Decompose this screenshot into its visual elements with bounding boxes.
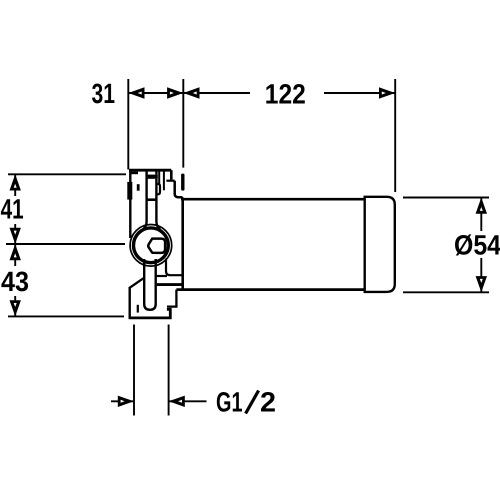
cylinder end cap — [365, 197, 395, 292]
extension line between 31 and 122 — [182, 79, 184, 168]
stem side bulge — [156, 184, 160, 194]
dimension line G1/2 left tail — [111, 400, 134, 402]
svg-text:41: 41 — [1, 193, 24, 224]
arrow 43 up — [10, 244, 21, 260]
hidden bottom line — [157, 283, 182, 286]
lower tick — [137, 305, 139, 313]
stem bridge block — [148, 175, 158, 179]
svg-text:G1: G1 — [216, 387, 243, 418]
arrow G1/2 pointing left — [169, 396, 185, 407]
dimension line 31 — [128, 92, 183, 94]
arrow 31 right — [167, 87, 183, 98]
arrow d54 up — [476, 198, 487, 214]
second slot line — [163, 171, 165, 191]
cylinder bottom edge — [176, 288, 365, 291]
bracket top edge — [129, 169, 171, 172]
svg-text:2: 2 — [260, 387, 276, 418]
cylinder top edge — [181, 198, 365, 201]
bracket right edge middle — [175, 181, 183, 200]
svg-text:31: 31 — [92, 78, 116, 109]
left tab bar — [127, 182, 132, 200]
bracket bottom edge — [129, 309, 171, 318]
stem right line — [156, 179, 160, 230]
chamfer lower left — [129, 277, 145, 288]
bracket upper right edge — [170, 170, 173, 180]
solid spigot bar — [181, 174, 184, 191]
cartridge rounded square — [148, 239, 165, 253]
valve outer circle — [130, 225, 172, 267]
hidden top line — [146, 198, 158, 201]
extension line top of 41 — [8, 173, 126, 175]
dimension line 122 left segment — [183, 92, 250, 94]
dimension line 41 upper segment — [14, 174, 16, 196]
arrow 122 right — [379, 87, 395, 98]
joint line bracket-cylinder — [181, 199, 184, 289]
extension line right end of 122 — [394, 79, 396, 192]
dimension line G1/2 right tail — [169, 400, 207, 402]
svg-text:Ø54: Ø54 — [454, 230, 500, 261]
dimension line 43 upper segment — [14, 244, 16, 266]
stem below circle (U channel) — [144, 259, 156, 310]
screw shaft line — [158, 171, 160, 184]
arrow 122 left — [183, 87, 199, 98]
arrow 31 left — [128, 87, 144, 98]
bracket left edge upper — [129, 170, 131, 238]
dimension line d54 lower segment — [480, 258, 482, 292]
svg-text:122: 122 — [265, 78, 306, 109]
dimension line 43 lower segment — [14, 296, 16, 316]
bracket left edge lower — [128, 288, 130, 319]
arrow 43 down — [10, 300, 21, 316]
valve inner circle — [134, 228, 169, 263]
ledge right of circle — [166, 259, 183, 276]
svg-text:43: 43 — [1, 266, 29, 297]
dimension text G1/2 slash — [246, 391, 259, 414]
extension line bottom of diameter 54 — [403, 291, 489, 293]
extension line bottom of 43 — [8, 315, 124, 317]
ledge left segment — [157, 275, 167, 277]
arrow d54 down — [476, 276, 487, 292]
extension line left of G1/2 — [133, 325, 135, 416]
dimension line 41 lower segment — [14, 224, 16, 244]
arrow 41 up — [10, 174, 21, 190]
arrow G1/2 pointing right — [118, 396, 134, 407]
top left mark — [132, 172, 139, 175]
extension line left end of 31 — [127, 79, 129, 170]
stem left line — [143, 171, 147, 230]
arrow 41 down — [10, 228, 21, 244]
dimension line 122 right segment — [324, 92, 395, 94]
hook below cylinder — [167, 290, 176, 307]
extension line top of diameter 54 — [403, 197, 489, 199]
extension line middle of 41/43 — [6, 243, 125, 245]
extension line right of G1/2 — [168, 325, 170, 416]
stem right upper — [155, 171, 157, 175]
dimension line d54 upper segment — [480, 198, 482, 232]
upper tick — [137, 184, 140, 191]
bracket right step stub — [166, 180, 174, 182]
